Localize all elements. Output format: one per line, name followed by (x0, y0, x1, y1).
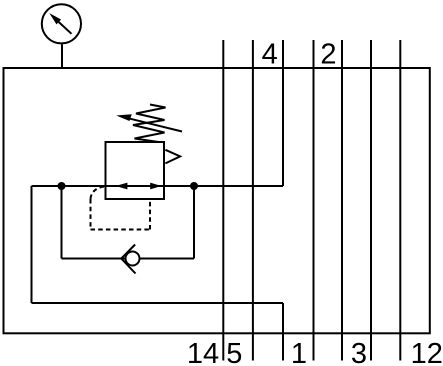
check valve V2 (121, 245, 139, 274)
regulator adjustment arrow (116, 114, 182, 131)
wire: check-valve branch bottom run (y=258.5) (62, 258, 195, 260)
regulator spring (133, 105, 166, 143)
wire: check-valve branch right rise (x=194) (193, 186, 195, 259)
wire: check-valve branch left drop (x=61.5) (61, 186, 63, 259)
svg-text:1: 1 (291, 338, 307, 366)
regulator relief vent triangle (165, 150, 180, 164)
pressure regulator V1 body (106, 142, 165, 199)
wire: left down segment (x=31.5) (31, 186, 33, 303)
svg-text:5: 5 (226, 338, 242, 366)
manifold line L3 lower, supply riser port 1 (x=283) (282, 303, 284, 361)
regulator flow arrow right (150, 183, 161, 190)
regulator flow arrow left (116, 183, 128, 190)
manifold line L3 upper, port 4 branch (x=283) (282, 40, 284, 186)
manifold line L1 (x=223.3) (222, 40, 224, 361)
manifold line L7 (x=400.3) (399, 40, 401, 361)
svg-text:2: 2 (320, 39, 336, 71)
wire: bottom supply segment (y=303) (32, 302, 284, 304)
wire: regulator flow line (y=186) (32, 185, 284, 187)
pilot line (dashed) (91, 187, 151, 230)
manifold line L5 (x=342) (341, 40, 343, 361)
pressure gauge G1 (42, 4, 81, 43)
enclosure outline (4, 68, 430, 333)
junction dot A (61.5,186) (58, 182, 66, 190)
junction dot B (194,186) (190, 182, 198, 190)
wire: gauge stem (61, 44, 63, 68)
manifold line L6 (x=371) (370, 40, 372, 361)
svg-text:4: 4 (262, 39, 278, 71)
svg-text:14: 14 (187, 338, 219, 366)
manifold line L2 (x=252.9) (252, 40, 254, 361)
svg-text:3: 3 (351, 338, 367, 366)
manifold line L4 (x=313.5) (313, 40, 315, 361)
svg-text:12: 12 (411, 338, 443, 366)
